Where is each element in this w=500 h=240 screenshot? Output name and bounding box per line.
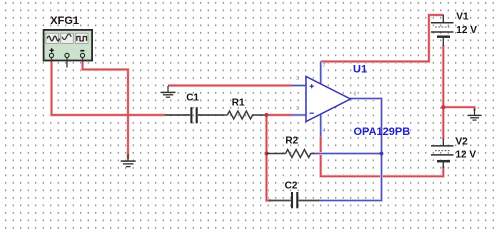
svg-text:V2: V2 bbox=[456, 136, 469, 147]
svg-text:C1: C1 bbox=[186, 92, 199, 103]
resistor R1 bbox=[224, 114, 227, 116]
svg-text:4: 4 bbox=[323, 128, 326, 134]
battery V2 bbox=[431, 139, 454, 169]
resistor R2 bbox=[267, 150, 315, 158]
svg-text:R1: R1 bbox=[232, 97, 245, 108]
svg-text:C2: C2 bbox=[285, 181, 298, 192]
red wires core bbox=[52, 15, 475, 201]
svg-text:U1: U1 bbox=[353, 64, 367, 76]
svg-text:12 V: 12 V bbox=[456, 25, 477, 36]
node at R2 left bbox=[265, 152, 269, 156]
svg-text:R2: R2 bbox=[285, 135, 298, 146]
capacitor C2 bbox=[269, 192, 319, 208]
svg-text:3: 3 bbox=[296, 76, 299, 82]
svg-text:V1: V1 bbox=[456, 11, 469, 22]
svg-text:12 V: 12 V bbox=[456, 150, 477, 161]
ground (at non-inverting input wire) bbox=[161, 86, 176, 97]
node at R1 output bbox=[265, 113, 269, 117]
ground (under XFG1 minus wire) bbox=[121, 154, 136, 167]
ground (right, between V1 and V2) bbox=[468, 109, 482, 121]
function generator XFG1 bbox=[44, 30, 93, 68]
svg-text:XFG1: XFG1 bbox=[50, 15, 79, 27]
red wires halo bbox=[52, 15, 475, 201]
blue wires core bbox=[292, 62, 382, 201]
svg-text:OPA129PB: OPA129PB bbox=[354, 126, 411, 138]
battery V1 bbox=[431, 15, 454, 46]
op-amp U1 bbox=[306, 77, 351, 122]
svg-text:2: 2 bbox=[296, 106, 299, 112]
svg-text:7: 7 bbox=[323, 63, 326, 69]
node feedback junction bbox=[380, 152, 384, 156]
blue wires halo bbox=[292, 62, 382, 201]
capacitor C1 bbox=[165, 107, 224, 123]
svg-text:6: 6 bbox=[354, 92, 357, 98]
node between V1 and V2 bbox=[441, 105, 445, 109]
